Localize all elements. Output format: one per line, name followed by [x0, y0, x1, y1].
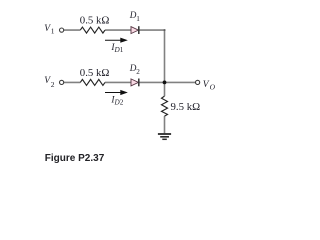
svg-text:Figure P2.37: Figure P2.37	[45, 153, 105, 164]
svg-text:1: 1	[51, 27, 55, 36]
svg-text:0.5 kΩ: 0.5 kΩ	[80, 14, 110, 26]
svg-text:0.5 kΩ: 0.5 kΩ	[80, 67, 110, 79]
svg-text:1: 1	[136, 15, 140, 23]
svg-text:2: 2	[136, 68, 140, 76]
svg-text:9.5 kΩ: 9.5 kΩ	[171, 101, 201, 113]
svg-text:1: 1	[120, 46, 124, 54]
svg-text:2: 2	[120, 98, 124, 106]
svg-text:2: 2	[51, 80, 55, 89]
svg-text:O: O	[210, 82, 216, 91]
